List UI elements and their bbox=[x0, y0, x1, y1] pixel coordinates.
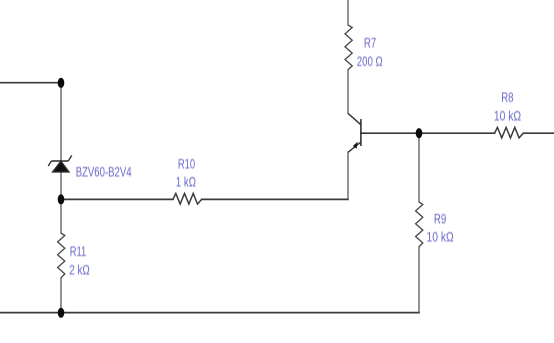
svg-text:200 Ω: 200 Ω bbox=[357, 53, 383, 69]
wire emitter vertical bbox=[347, 152, 349, 199]
zener left tail bbox=[48, 161, 51, 166]
node A junction dot bbox=[58, 78, 65, 88]
node D junction dot (base node) bbox=[416, 128, 423, 138]
transistor emitter arrow bbox=[353, 142, 358, 149]
wire node B to R10 bbox=[61, 198, 173, 200]
wire below R11 bbox=[60, 278, 62, 313]
zener right tail bbox=[68, 155, 72, 161]
resistor R10 zigzag bbox=[173, 194, 202, 205]
wire bottom horizontal rail bbox=[0, 312, 419, 314]
wire left vertical through zener bbox=[60, 83, 62, 233]
wire right vertical above R9 bbox=[418, 133, 420, 202]
svg-text:10 kΩ: 10 kΩ bbox=[427, 229, 454, 245]
transistor base bar bbox=[360, 119, 362, 146]
svg-text:R9: R9 bbox=[434, 211, 447, 227]
resistor R7 zigzag bbox=[345, 25, 352, 70]
node C junction dot (bottom rail) bbox=[58, 308, 65, 318]
svg-text:10 kΩ: 10 kΩ bbox=[494, 108, 521, 124]
svg-text:2 kΩ: 2 kΩ bbox=[69, 262, 90, 278]
svg-text:1 kΩ: 1 kΩ bbox=[176, 174, 196, 190]
wire right vertical below R9 bbox=[418, 247, 420, 313]
zener anode triangle bbox=[53, 161, 69, 172]
wire R8 to right edge bbox=[523, 132, 554, 134]
wire R7 to transistor collector bbox=[347, 70, 349, 114]
transistor collector lead bbox=[348, 113, 361, 125]
svg-text:R8: R8 bbox=[501, 89, 514, 105]
node B junction dot bbox=[58, 194, 65, 204]
wire top-left horizontal to node A bbox=[0, 82, 61, 84]
resistor R9 zigzag bbox=[416, 202, 423, 247]
wire base node to R8 bbox=[361, 132, 495, 134]
svg-text:R10: R10 bbox=[178, 156, 196, 172]
wire top vertical to R7 bbox=[347, 0, 349, 25]
svg-text:R11: R11 bbox=[70, 243, 87, 259]
zener cathode bar bbox=[51, 160, 68, 162]
transistor emitter lead bbox=[348, 142, 361, 152]
resistor R8 zigzag bbox=[495, 127, 524, 137]
zener diode body bbox=[48, 155, 72, 172]
svg-text:BZV60-B2V4: BZV60-B2V4 bbox=[76, 163, 132, 179]
wire R10 to emitter corner bbox=[202, 198, 348, 200]
svg-text:R7: R7 bbox=[364, 35, 377, 51]
transistor Q1 (PNP) bbox=[348, 113, 361, 152]
resistor R11 zigzag bbox=[58, 233, 65, 278]
